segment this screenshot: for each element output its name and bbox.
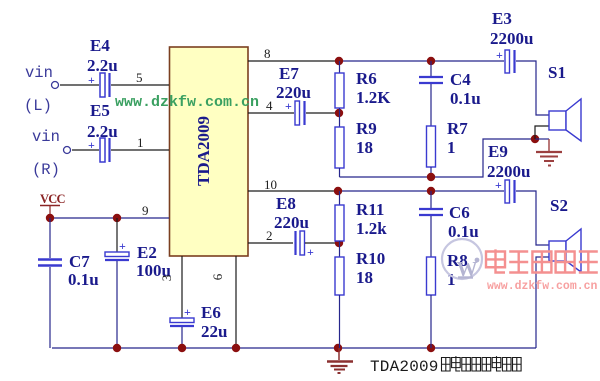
resistor R8 1: [427, 251, 468, 348]
svg-text:R9: R9: [356, 119, 377, 138]
wire pin10 node to C6 node: [338, 190, 431, 192]
caption TDA2009 title: [370, 356, 521, 376]
pink watermark text: [486, 249, 598, 293]
capacitor E2 100u: [105, 218, 171, 348]
svg-text:+: +: [88, 73, 95, 87]
svg-text:+: +: [496, 48, 503, 62]
resistor R9 18: [335, 113, 377, 177]
svg-text:6: 6: [210, 273, 225, 280]
svg-text:22u: 22u: [201, 322, 227, 341]
svg-text:1.2K: 1.2K: [356, 88, 391, 107]
capacitor E9 2200u: [487, 142, 530, 203]
capacitor E4 2.2u: [87, 36, 118, 97]
node junction rail E2: [113, 344, 121, 352]
svg-text:TDA2009: TDA2009: [194, 116, 213, 186]
svg-text:E2: E2: [137, 243, 157, 262]
svg-text:220u: 220u: [276, 83, 311, 102]
wire E4 to pin 5: [111, 70, 169, 85]
node vin L terminal: [24, 64, 59, 115]
wire vinL to E4: [60, 84, 99, 86]
svg-text:0.1u: 0.1u: [68, 270, 99, 289]
node junction S1 return: [531, 135, 539, 143]
svg-text:R6: R6: [356, 69, 377, 88]
svg-text:18: 18: [356, 138, 373, 157]
node junction E7 R6 R9: [335, 109, 343, 117]
svg-text:10: 10: [264, 177, 277, 192]
power VCC symbol: [40, 192, 65, 218]
svg-text:VCC: VCC: [40, 192, 65, 206]
wire pin 10 output: [248, 177, 338, 192]
capacitor C4 0.1u: [419, 61, 481, 126]
capacitor C6 0.1u: [419, 191, 479, 257]
wire pin8 node to C4 node: [339, 60, 431, 62]
svg-text:+: +: [88, 138, 95, 152]
svg-text:E9: E9: [488, 142, 508, 161]
svg-text:+: +: [495, 178, 502, 192]
svg-text:0.1u: 0.1u: [450, 89, 481, 108]
wire pin 8 output: [248, 46, 339, 61]
node junction VCC: [46, 214, 54, 222]
svg-text:1: 1: [447, 138, 456, 157]
svg-text:www.dzkfw.com.cn: www.dzkfw.com.cn: [115, 94, 259, 111]
speaker S1: [548, 63, 581, 141]
node junction pin10 C6: [427, 187, 435, 195]
wire S1 bottom stub: [535, 126, 549, 139]
svg-text:S2: S2: [550, 196, 568, 215]
green watermark www.dzkfw.com.cn: [115, 94, 259, 111]
svg-text:+: +: [307, 245, 314, 259]
wire S2 bottom to rail: [536, 257, 549, 348]
svg-text:R11: R11: [356, 200, 384, 219]
svg-text:TDA2009: TDA2009: [370, 358, 439, 376]
wire junction to ground S1: [535, 138, 549, 140]
svg-text:2200u: 2200u: [487, 162, 530, 181]
capacitor E7 220u: [276, 64, 335, 125]
wire E3 to S1: [516, 61, 549, 115]
resistor R7 1: [427, 119, 469, 177]
svg-text:(L): (L): [24, 97, 52, 115]
node junction E2 top: [113, 214, 121, 222]
capacitor E8 220u: [274, 194, 335, 259]
wire vinR to E5: [72, 149, 99, 151]
resistor R10 18: [335, 243, 385, 348]
wire C4 node to E3: [431, 60, 504, 62]
svg-text:+: +: [285, 99, 292, 113]
node junction rail R10: [334, 344, 342, 352]
svg-text:2200u: 2200u: [490, 29, 533, 48]
wire pin 6: [210, 256, 236, 348]
node junction pin8 R6: [335, 57, 343, 65]
svg-text:E4: E4: [90, 36, 110, 55]
wire pin 2: [248, 228, 293, 243]
capacitor E5 2.2u: [87, 101, 118, 162]
svg-text:18: 18: [356, 268, 373, 287]
pink watermark logo W circle: [442, 239, 482, 281]
ground symbol bottom: [327, 348, 353, 373]
svg-text:2: 2: [266, 228, 273, 243]
svg-text:C6: C6: [449, 203, 470, 222]
capacitor E6 22u: [170, 303, 227, 348]
wire E5 to pin 1: [111, 135, 169, 150]
svg-text:5: 5: [136, 70, 143, 85]
node junction rail R8: [427, 344, 435, 352]
svg-text:vin: vin: [25, 64, 53, 82]
svg-text:+: +: [184, 305, 191, 319]
svg-text:E3: E3: [492, 9, 512, 28]
svg-text:R7: R7: [447, 119, 468, 138]
speaker S2: [549, 196, 581, 272]
svg-text:8: 8: [264, 46, 271, 61]
ground symbol S1: [536, 139, 562, 166]
svg-text:1: 1: [137, 135, 144, 150]
wire bottom ground rail: [52, 347, 536, 349]
resistor R6 1.2K: [335, 61, 391, 113]
svg-text:9: 9: [142, 203, 149, 218]
node junction rail pin6: [232, 344, 240, 352]
wire pin 3: [159, 256, 182, 318]
svg-text:1.2k: 1.2k: [356, 219, 387, 238]
node junction pin8 C4: [427, 57, 435, 65]
node junction rail E6: [178, 344, 186, 352]
capacitor E3 2200u: [490, 9, 533, 73]
svg-text:www.dzkfw.com.cn: www.dzkfw.com.cn: [487, 280, 598, 293]
wire R9 R7 bottoms to S1 return: [340, 139, 536, 177]
wire E9 to S2: [516, 191, 549, 245]
svg-text:E8: E8: [276, 194, 296, 213]
svg-text:E7: E7: [279, 64, 299, 83]
svg-text:+: +: [119, 239, 126, 253]
svg-text:(R): (R): [32, 161, 60, 179]
resistor R11 1.2k: [335, 191, 387, 243]
wire VCC rail to pin 9: [50, 203, 169, 218]
svg-text:E6: E6: [201, 303, 221, 322]
wire C6 node to E9: [431, 190, 504, 192]
node junction R7 bottom: [427, 173, 435, 181]
capacitor C7 0.1u: [38, 218, 99, 348]
svg-text:S1: S1: [548, 63, 566, 82]
svg-text:220u: 220u: [274, 213, 309, 232]
svg-text:4: 4: [266, 98, 273, 113]
svg-text:C7: C7: [69, 252, 90, 271]
op-amp U1 TDA2009 IC body: [170, 47, 249, 256]
wire pin 4: [248, 98, 294, 113]
node junction E8 R11 R10: [335, 239, 343, 247]
svg-text:vin: vin: [32, 128, 60, 146]
svg-text:R10: R10: [356, 249, 385, 268]
svg-text:C4: C4: [450, 70, 471, 89]
node vin R terminal: [32, 128, 71, 179]
svg-text:E5: E5: [90, 101, 110, 120]
svg-text:3: 3: [159, 275, 174, 282]
node junction pin10 R11: [334, 187, 342, 195]
